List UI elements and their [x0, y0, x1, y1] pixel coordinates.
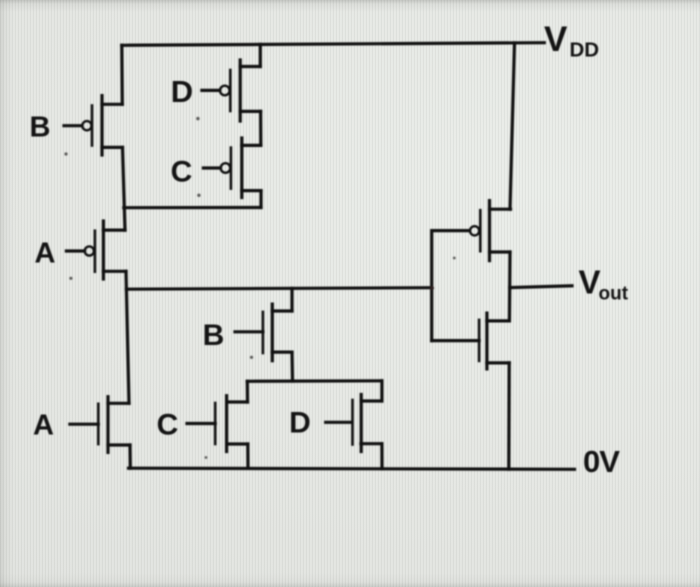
svg-text:V: V: [579, 264, 601, 301]
svg-text:V: V: [544, 20, 568, 59]
svg-text:out: out: [599, 284, 629, 305]
svg-text:B: B: [30, 112, 51, 144]
svg-text:C: C: [171, 156, 193, 189]
svg-text:C: C: [157, 409, 179, 442]
svg-text:0V: 0V: [583, 444, 620, 479]
svg-text:D: D: [289, 407, 311, 440]
svg-text:DD: DD: [570, 39, 600, 62]
svg-text:A: A: [33, 410, 54, 442]
svg-text:A: A: [35, 238, 56, 270]
svg-text:D: D: [171, 74, 193, 109]
svg-text:B: B: [203, 319, 225, 352]
